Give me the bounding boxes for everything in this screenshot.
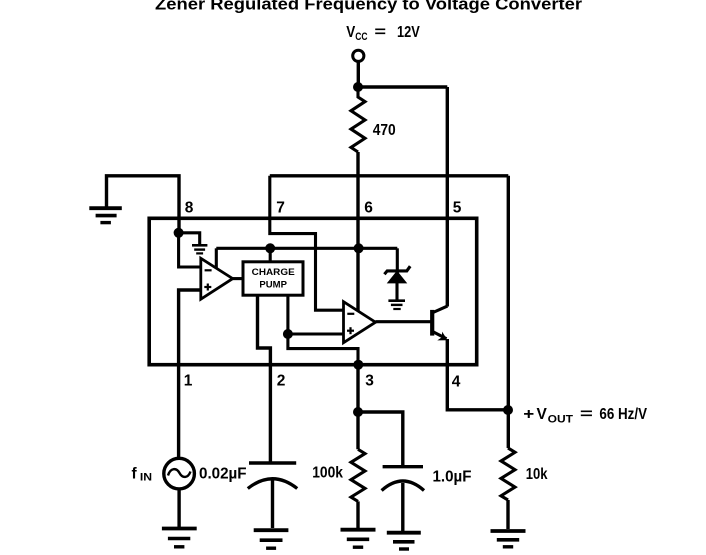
wire dot to A2 plus xyxy=(288,332,344,335)
svg-text:470: 470 xyxy=(373,122,396,139)
op-amp A2 xyxy=(344,302,376,343)
label +VOUT = 66 Hz/V xyxy=(523,406,647,426)
wire R2 to ground xyxy=(356,501,359,528)
svg-text:5: 5 xyxy=(453,200,462,217)
wire A1 output to charge pump xyxy=(233,277,243,280)
wire fIN to ground xyxy=(177,489,180,527)
svg-text:100k: 100k xyxy=(312,465,343,482)
svg-text:0.02µF: 0.02µF xyxy=(199,466,247,483)
junction dot rail / charge pump xyxy=(265,243,275,253)
ground G4 under R2 xyxy=(341,530,376,548)
wire VCC junction to collector branch xyxy=(358,85,447,88)
svg-text:CHARGE: CHARGE xyxy=(252,267,295,277)
ground G8 under C1 xyxy=(254,530,289,548)
svg-text:+: + xyxy=(523,406,534,423)
ground G1 top-left xyxy=(89,208,122,222)
resistor R3 10k xyxy=(501,448,515,500)
svg-text:4: 4 xyxy=(452,374,461,391)
wire R3 to ground xyxy=(506,500,509,529)
wire pin3 node to C2 xyxy=(358,412,403,466)
svg-text:12V: 12V xyxy=(397,24,420,41)
svg-text:f: f xyxy=(132,466,138,483)
wire pin3 external xyxy=(356,365,359,450)
svg-text:8: 8 xyxy=(185,200,194,217)
capacitor C1 0.02uF xyxy=(248,463,297,528)
wire top-left ground run xyxy=(107,176,180,233)
svg-text:Zener Regulated Frequency to V: Zener Regulated Frequency to Voltage Con… xyxy=(155,0,582,14)
wire charge pump top xyxy=(269,248,272,261)
wire Q1 emitter to pin4 xyxy=(447,339,507,410)
wire pin8 dot to A1 inverting input xyxy=(179,233,201,267)
wire charge pump to pin2 xyxy=(258,295,271,461)
ground G5 under C2 xyxy=(387,533,421,549)
junction dot charge pump out xyxy=(283,329,293,339)
svg-text:OUT: OUT xyxy=(548,414,574,426)
svg-text:10k: 10k xyxy=(526,466,548,483)
ground G3 internal under zener xyxy=(388,301,405,309)
wire feedback line A (pin7 to VOUT) xyxy=(270,174,509,177)
svg-text:IN: IN xyxy=(140,472,152,484)
VCC terminal xyxy=(353,50,364,61)
junction dot pin3 on box edge xyxy=(353,360,363,370)
junction dot VOUT xyxy=(503,405,513,415)
junction dot pin8 xyxy=(174,228,184,238)
label VCC = 12V xyxy=(346,24,420,43)
svg-text:2: 2 xyxy=(277,373,286,390)
svg-text:=: = xyxy=(580,406,593,423)
svg-text:1.0µF: 1.0µF xyxy=(433,469,472,486)
wire VOUT vertical xyxy=(507,176,510,448)
svg-text:1: 1 xyxy=(184,373,193,390)
IC box U1 xyxy=(149,218,477,364)
junction dot pin3 node xyxy=(353,407,363,417)
wire pin8 dot to internal ground xyxy=(179,233,200,244)
svg-text:6: 6 xyxy=(364,200,373,217)
svg-text:66 Hz/V: 66 Hz/V xyxy=(599,406,647,423)
wire VCC terminal to junction xyxy=(357,62,360,88)
op-amp A1 xyxy=(201,258,233,299)
svg-text:PUMP: PUMP xyxy=(259,280,287,290)
resistor R2 100k xyxy=(351,449,365,501)
svg-text:3: 3 xyxy=(365,373,374,390)
wire charge pump out to A2 plus input xyxy=(286,295,289,334)
wire pin5/collector vertical xyxy=(446,87,449,307)
ground G2 internal near op-amp A1 xyxy=(192,245,207,253)
junction dot rail / pin 6 xyxy=(354,243,364,253)
wire resistor bottom to rail (pin 6) xyxy=(356,152,359,311)
ground G6 under R3 xyxy=(491,531,526,547)
charge pump block xyxy=(243,262,303,295)
resistor R1 470 xyxy=(351,87,365,152)
wire pin1 to A1 non-inverting input xyxy=(179,290,201,458)
transistor Q1 xyxy=(432,306,447,340)
svg-text:V: V xyxy=(537,406,548,423)
source fIN xyxy=(164,458,195,489)
zener D1 xyxy=(384,248,410,299)
svg-text:7: 7 xyxy=(276,200,285,217)
svg-text:=: = xyxy=(374,24,386,41)
capacitor C2 1.0uF xyxy=(382,467,424,531)
wire A2 output to Q1 base xyxy=(376,320,433,323)
wire dot to pin3 xyxy=(288,334,358,365)
wire internal rail xyxy=(216,247,397,250)
junction dot VCC xyxy=(353,82,363,92)
ground G7 under fIN xyxy=(162,529,197,547)
wire A1 bias to rail xyxy=(215,248,218,268)
wire pin7 to A2 inverting input xyxy=(270,176,344,310)
svg-text:CC: CC xyxy=(355,31,367,43)
